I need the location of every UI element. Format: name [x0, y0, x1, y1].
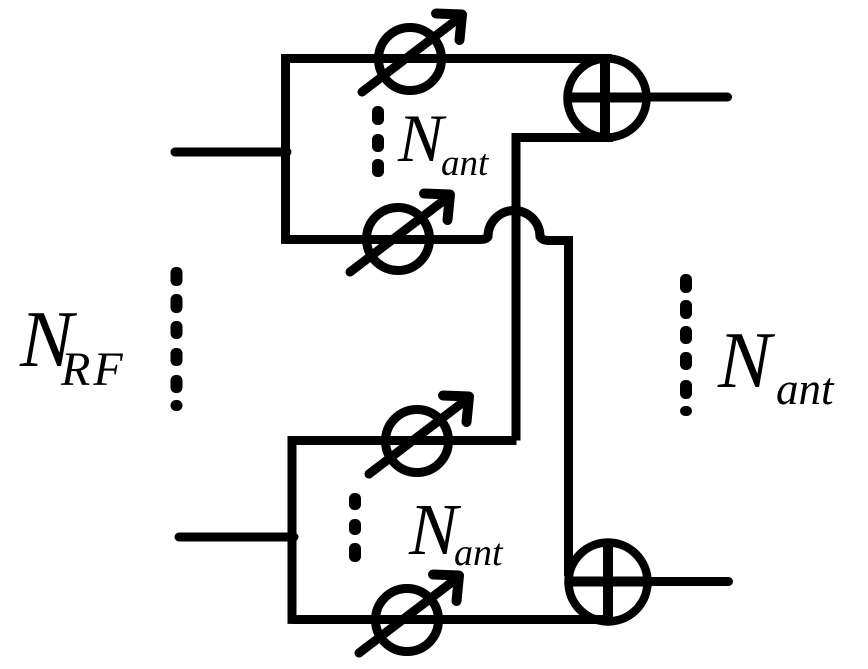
wire: bottom RF input: [179, 533, 294, 542]
wire: top RF input: [175, 148, 287, 157]
svg-text:RF: RF: [60, 343, 126, 396]
label N_RF: [19, 296, 126, 396]
dotted ellipsis left (N_RF rows): [171, 267, 183, 411]
wire: summer S1 output: [650, 93, 728, 102]
summer S1: [564, 55, 651, 142]
arrow head PS4: [433, 575, 459, 602]
label N_ant bottom middle: [408, 489, 504, 574]
dotted ellipsis bottom middle (N_ant branches): [349, 493, 361, 562]
dotted ellipsis right (antenna rows): [680, 274, 692, 416]
phase shifter PS1: [362, 18, 459, 92]
wire: bottom lower branch to summer S2 bottom: [292, 615, 612, 624]
dotted ellipsis top middle (N_ant branches): [372, 106, 384, 177]
svg-text:N: N: [717, 317, 776, 405]
arrow head PS1: [436, 14, 462, 41]
phase shifter PS2: [350, 198, 447, 272]
arrow head PS3: [443, 396, 469, 423]
phase shifter PS3: [369, 400, 466, 474]
wire: vertical riser from bottom section up to summer S1 bottom input: [516, 138, 613, 441]
label N_ant top middle: [397, 100, 490, 184]
wire: summer S2 output: [651, 577, 729, 586]
svg-text:ant: ant: [776, 364, 835, 414]
svg-text:N: N: [397, 100, 447, 176]
svg-text:ant: ant: [441, 143, 490, 184]
phase shifter PS4: [359, 579, 456, 653]
svg-text:ant: ant: [454, 532, 504, 574]
summer S2: [565, 539, 652, 626]
arrow head PS2: [424, 194, 450, 221]
wire: top splitter bus + upper branch to summer S1: [286, 59, 613, 244]
wire: bottom splitter bus + upper branch joining riser: [292, 441, 517, 624]
label N_ant right: [717, 317, 835, 414]
wire: top lower branch with crossover hop, down to summer S2: [286, 211, 569, 577]
